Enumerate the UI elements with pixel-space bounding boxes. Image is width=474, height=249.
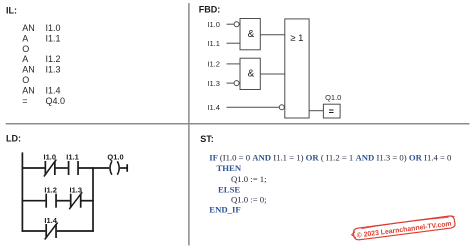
AND gate 1 — [240, 19, 260, 50]
svg-text:Q1.0 := 1;: Q1.0 := 1; — [231, 174, 267, 184]
svg-text:I1.0: I1.0 — [207, 20, 220, 29]
svg-text:THEN: THEN — [217, 163, 242, 173]
NO contact I1.1 — [69, 161, 79, 175]
wire OR to output — [309, 110, 323, 112]
svg-text:IF (I1.0 = 0 AND I1.1 = 1) OR: IF (I1.0 = 0 AND I1.1 = 1) OR ( I1.2 = 1… — [209, 152, 452, 162]
svg-text:END_IF: END_IF — [209, 205, 240, 215]
wire AND2 to OR — [260, 73, 285, 75]
svg-text:ELSE: ELSE — [218, 184, 240, 194]
rung 2 wire a — [22, 200, 46, 202]
svg-text:I1.1: I1.1 — [66, 153, 79, 162]
svg-text:O: O — [22, 44, 29, 54]
divider horizontal — [6, 123, 470, 125]
svg-text:AN: AN — [22, 86, 35, 96]
rung 3 wire b — [57, 230, 94, 232]
IL code line 6 — [22, 75, 29, 85]
rung 2 wire c — [81, 200, 93, 202]
IL code line 8 — [22, 96, 65, 106]
svg-text:I1.2: I1.2 — [207, 60, 220, 69]
svg-text:=: = — [22, 96, 27, 106]
svg-text:≥ 1: ≥ 1 — [290, 33, 303, 44]
IL code line 3 — [22, 44, 29, 54]
IL code line 5 — [22, 65, 60, 75]
wire I1.0 — [227, 23, 235, 25]
svg-text:FBD:: FBD: — [199, 4, 221, 14]
svg-text:A: A — [22, 33, 28, 43]
right rail stub — [126, 164, 128, 172]
IL code line 2 — [22, 33, 60, 43]
divider vertical — [188, 3, 190, 246]
NC contact I1.4 — [45, 223, 58, 240]
svg-text:I1.1: I1.1 — [46, 33, 61, 43]
svg-text:AN: AN — [22, 65, 35, 75]
svg-text:&: & — [248, 69, 255, 80]
OR gate (>=1) — [285, 19, 309, 118]
svg-text:=: = — [329, 106, 334, 116]
rung 1 wire d — [120, 167, 128, 169]
wire I1.2 — [227, 63, 241, 65]
svg-text:I1.1: I1.1 — [207, 39, 220, 48]
svg-text:I1.3: I1.3 — [46, 65, 61, 75]
wire I1.4 — [227, 106, 280, 108]
NC contact I1.3 — [69, 192, 82, 209]
svg-text:Q1.0 := 0;: Q1.0 := 0; — [231, 195, 267, 205]
NO contact I1.2 — [46, 194, 56, 208]
negation circle I1.0 — [234, 22, 239, 27]
left power rail — [21, 152, 23, 231]
svg-text:I1.3: I1.3 — [70, 186, 83, 195]
coil Q1.0 — [110, 161, 119, 175]
rung 2 wire b — [57, 200, 70, 202]
svg-text:O: O — [22, 75, 29, 85]
svg-text:Q1.0: Q1.0 — [325, 93, 341, 102]
svg-text:LD:: LD: — [6, 134, 21, 144]
svg-text:IL:: IL: — [6, 6, 17, 16]
svg-text:I1.3: I1.3 — [207, 79, 220, 88]
watermark stamp — [351, 215, 456, 240]
junction vertical wire — [92, 167, 94, 232]
IL code line 7 — [22, 86, 60, 96]
svg-text:Q1.0: Q1.0 — [107, 153, 123, 162]
svg-text:Q4.0: Q4.0 — [46, 96, 66, 106]
svg-text:I1.0: I1.0 — [44, 153, 57, 162]
negation circle I1.3 — [234, 81, 239, 86]
AND gate 2 — [240, 58, 260, 89]
svg-text:I1.4: I1.4 — [207, 103, 220, 112]
IL code line 4 — [22, 54, 60, 64]
rung 1 wire c — [79, 167, 109, 169]
rung 3 wire a — [22, 230, 46, 232]
svg-text:AN: AN — [22, 23, 35, 33]
svg-text:&: & — [248, 29, 255, 40]
wire I1.3 — [227, 82, 235, 84]
svg-text:ST:: ST: — [200, 134, 214, 144]
rung 1 wire a — [22, 167, 45, 169]
svg-text:I1.4: I1.4 — [46, 86, 61, 96]
svg-text:I1.2: I1.2 — [44, 186, 57, 195]
svg-text:A: A — [22, 54, 28, 64]
NC contact I1.0 — [44, 160, 56, 177]
IL code line 1 — [22, 23, 60, 33]
wire I1.1 — [227, 42, 241, 44]
wire AND1 to OR — [260, 34, 285, 36]
output coil block = — [323, 104, 340, 118]
negation circle I1.4 — [279, 105, 284, 110]
rung 1 wire b — [56, 167, 68, 169]
svg-text:I1.2: I1.2 — [46, 54, 61, 64]
svg-text:I1.0: I1.0 — [46, 23, 61, 33]
